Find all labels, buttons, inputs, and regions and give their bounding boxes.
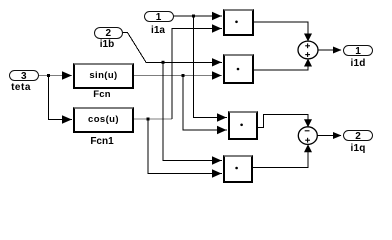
arrowhead into P2 in1 bbox=[212, 58, 222, 66]
product dot P1 bbox=[235, 21, 238, 24]
label i1a bbox=[143, 25, 173, 36]
wire sin(u) output to P2 in2 bbox=[134, 75, 223, 77]
wire cos to P1 in2 bbox=[172, 29, 222, 120]
arrowhead into out2 bbox=[333, 132, 342, 139]
wire cos branch to P4 in2 bbox=[148, 119, 222, 174]
arrowhead into P1 in2 bbox=[212, 24, 222, 32]
label Fcn1 bbox=[86, 136, 118, 147]
sum block S1 bbox=[298, 41, 318, 59]
outport 2 i1q bbox=[343, 130, 373, 142]
label teta bbox=[6, 82, 36, 93]
wire P1 output to sum1 top bbox=[254, 22, 308, 40]
arrowhead into sum2 bottom bbox=[304, 144, 312, 152]
arrowhead into P3 in1 bbox=[217, 113, 227, 121]
junction sin branch bbox=[182, 74, 185, 77]
product dot P2 bbox=[237, 68, 240, 71]
arrowhead into P1 in1 bbox=[212, 12, 222, 20]
label i1q bbox=[343, 143, 373, 154]
wire i1a to P1 in1 bbox=[174, 15, 223, 17]
arrowhead into sum1 bottom bbox=[304, 59, 312, 67]
wire P3 output jog to sum2 top bbox=[257, 115, 308, 128]
product block P3 bbox=[228, 111, 258, 141]
wire cos(u) output bbox=[134, 118, 173, 120]
product dot P3 bbox=[240, 124, 243, 127]
outport 1 i1d bbox=[343, 45, 373, 57]
arrowhead into P4 in1 bbox=[212, 156, 222, 164]
product block P2 bbox=[223, 54, 254, 84]
arrowhead into sum1 top bbox=[304, 34, 312, 42]
wire teta branch to cos(u) bbox=[49, 76, 73, 120]
wire P2 output to sum1 bottom bbox=[254, 61, 308, 71]
arrowhead into P2 in2 bbox=[212, 71, 222, 79]
arrowhead into P3 in2 bbox=[217, 126, 227, 134]
arrowhead into sum2 top bbox=[304, 119, 312, 127]
wire sum1 output to out1 bbox=[318, 49, 341, 51]
Fcn1 block cos(u) bbox=[73, 107, 134, 133]
arrowhead into out1 bbox=[333, 47, 342, 54]
sum block S2 bbox=[298, 127, 317, 145]
product block P4 bbox=[223, 155, 253, 184]
arrowhead into cos(u) bbox=[62, 115, 72, 123]
inport 3 teta bbox=[9, 70, 40, 82]
product block P1 bbox=[223, 9, 254, 36]
junction teta branch bbox=[47, 74, 50, 77]
wire i1b branch to P4 in1 bbox=[163, 62, 222, 160]
wire sum2 output to out2 bbox=[318, 135, 342, 137]
product dot P4 bbox=[235, 167, 238, 170]
junction i1b branch bbox=[162, 61, 165, 64]
label i1d bbox=[343, 58, 373, 69]
junction i1a branch bbox=[192, 15, 195, 18]
arrowhead into sin(u) bbox=[62, 71, 72, 79]
wire i1a branch to P3 in1 bbox=[194, 16, 228, 118]
label Fcn bbox=[87, 89, 117, 100]
Fcn block sin(u) bbox=[73, 63, 134, 89]
wire sin branch to P3 in2 bbox=[183, 76, 227, 131]
wire teta to sin(u) bbox=[39, 75, 72, 77]
wire P4 output to sum2 bottom bbox=[253, 146, 308, 168]
junction cos branch bbox=[147, 118, 150, 121]
label i1b bbox=[92, 39, 122, 50]
inport 2 i1b bbox=[94, 27, 124, 39]
inport 1 i1a bbox=[144, 11, 174, 23]
arrowhead into P4 in2 bbox=[212, 169, 222, 177]
wire i1b diagonal to P2 in1 bbox=[123, 33, 222, 63]
